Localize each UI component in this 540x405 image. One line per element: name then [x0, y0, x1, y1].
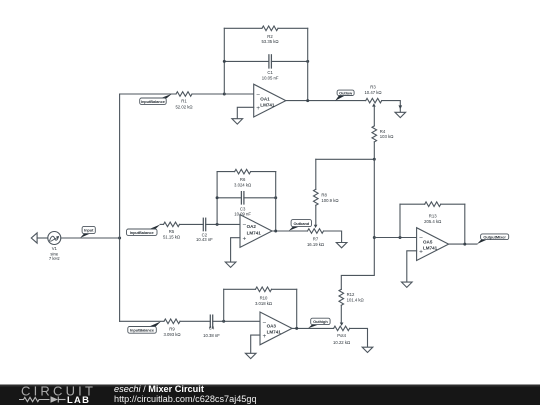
node InputBalance flag row2 [127, 225, 161, 236]
wire row1 input [120, 93, 176, 95]
svg-text:+: + [243, 236, 247, 243]
potentiometer R7 [307, 225, 324, 247]
svg-text:LAB: LAB [67, 394, 90, 405]
svg-text:7 kHz: 7 kHz [49, 256, 60, 261]
svg-text:LM741: LM741 [423, 245, 438, 250]
footer bar [0, 385, 540, 405]
junction row2 feedback left [216, 223, 219, 226]
resistor R10 [224, 287, 297, 306]
svg-text:R9: R9 [169, 326, 175, 331]
resistor R5 [160, 222, 203, 240]
node OutputMixer flag [477, 234, 509, 244]
svg-text:Outhigh: Outhigh [313, 319, 328, 324]
wire row3 input [120, 320, 164, 322]
capacitor C1 [223, 55, 309, 81]
wire trunk vertical [119, 94, 121, 321]
wire Pot4 wiper to R12 [340, 305, 342, 322]
wire R4 to bus [373, 142, 375, 159]
svg-text:R12: R12 [347, 292, 355, 297]
capacitor C4 [203, 315, 260, 338]
voltage source V1 [48, 232, 61, 261]
resistor R4 [372, 126, 393, 142]
potentiometer R3 [364, 84, 381, 106]
capacitor C3 [216, 192, 278, 217]
svg-text:OA1: OA1 [260, 97, 270, 102]
junction OA2 output [274, 230, 277, 233]
node Outband flag [289, 220, 312, 231]
svg-text:OA2: OA2 [247, 224, 257, 229]
svg-text:10.38 nF: 10.38 nF [203, 333, 220, 338]
svg-text:Outband: Outband [293, 221, 309, 226]
svg-text:R13: R13 [429, 213, 437, 218]
svg-text:100.9 kΩ: 100.9 kΩ [321, 198, 338, 203]
op-amp OA5 [417, 228, 449, 261]
junction R13 left [399, 236, 402, 239]
resistor R6 [217, 169, 276, 187]
resistor R1 [175, 92, 192, 110]
ground Pot4 [362, 347, 373, 352]
svg-text:C1: C1 [267, 70, 273, 75]
junction row3 feedback left [222, 320, 225, 323]
resistor R12 [339, 289, 364, 305]
resistor R8 [314, 189, 339, 205]
node InputBalance flag row3 [128, 321, 161, 333]
resistor R13 [400, 202, 465, 224]
wire feedback-left row1 [223, 28, 225, 94]
svg-text:LM741: LM741 [267, 330, 282, 335]
junction OA3 output [295, 327, 298, 330]
svg-text:R8: R8 [321, 192, 327, 197]
ground OA3 [245, 335, 260, 359]
svg-text:52.02 kΩ: 52.02 kΩ [175, 104, 192, 109]
svg-text:LM741: LM741 [260, 103, 275, 108]
wire feedback-left row3 [223, 289, 225, 321]
svg-text:10.22 kΩ: 10.22 kΩ [333, 340, 350, 345]
wire OA5 output [449, 243, 477, 245]
node Input flag [80, 226, 95, 238]
wire bus R8-R4 [316, 158, 375, 160]
op-amp OA1 [254, 84, 286, 117]
svg-text:R6: R6 [240, 177, 246, 182]
svg-text:3.018 kΩ: 3.018 kΩ [255, 301, 272, 306]
resistor R2 [224, 26, 307, 44]
svg-text:C4: C4 [209, 326, 215, 331]
ground R3 [395, 105, 406, 117]
svg-text:OA5: OA5 [423, 240, 433, 245]
wire feedback-left mixer [399, 204, 401, 237]
svg-text:101.4 kΩ: 101.4 kΩ [347, 298, 364, 303]
ground OA2 [225, 238, 240, 268]
wire feedback-left row2 [216, 172, 218, 225]
ground OA5 [402, 251, 417, 288]
svg-text:InputBalance: InputBalance [141, 99, 166, 104]
svg-text:Pot4: Pot4 [337, 333, 346, 338]
potentiometer Pot4 [333, 323, 350, 345]
node Outhigh flag [308, 318, 330, 328]
wire feedback-right mixer [464, 204, 466, 244]
wire summing vertical [341, 159, 374, 289]
wire OA2 output [272, 230, 308, 232]
svg-text:10.43 nF: 10.43 nF [196, 237, 213, 242]
wire R7 wiper to R8 [315, 205, 317, 225]
wire OA1 output [286, 100, 366, 102]
wire R1 to OA1 [192, 93, 254, 95]
footer title [114, 384, 257, 404]
wire feedback-right row2 [275, 172, 277, 231]
svg-text:R3: R3 [370, 84, 376, 89]
svg-text:205.4 kΩ: 205.4 kΩ [424, 219, 441, 224]
svg-text:R10: R10 [260, 296, 268, 301]
junction bus [373, 158, 376, 161]
svg-text:3.093 kΩ: 3.093 kΩ [163, 332, 180, 337]
junction input-trunk [118, 237, 121, 240]
wire R8 to bus [315, 159, 317, 189]
junction OA1 output [306, 99, 309, 102]
wire feedback-right row3 [296, 289, 298, 328]
ground OA1 [232, 107, 254, 124]
svg-text:51.15 kΩ: 51.15 kΩ [163, 235, 180, 240]
ground flag at V1 left [31, 233, 47, 243]
svg-text:3.024 kΩ: 3.024 kΩ [234, 183, 251, 188]
svg-text:103 kΩ: 103 kΩ [380, 134, 394, 139]
svg-text:LM741: LM741 [247, 230, 262, 235]
wire Pot4 to ground [350, 328, 368, 347]
svg-text:R7: R7 [313, 237, 319, 242]
wire R3 wiper to R4 [373, 106, 375, 126]
svg-text:C3: C3 [240, 206, 246, 211]
resistor R9 [163, 319, 210, 337]
svg-text:10.47 kΩ: 10.47 kΩ [364, 90, 381, 95]
logo CIRCUIT LAB [19, 384, 96, 405]
svg-text:esechi / Mixer Circuit: esechi / Mixer Circuit [114, 384, 204, 394]
svg-text:16.19 kΩ: 16.19 kΩ [307, 242, 324, 247]
wire R3 to ground [382, 101, 401, 106]
svg-text:V1: V1 [52, 246, 58, 251]
wire V1 to trunk [61, 237, 120, 239]
svg-text:Input: Input [84, 228, 94, 233]
wire feedback-right row1 [307, 28, 309, 100]
node Outlow flag [335, 90, 354, 101]
svg-text:InputBalance: InputBalance [130, 328, 155, 333]
junction OA5 output [463, 243, 466, 246]
svg-text:InputBalance: InputBalance [130, 230, 155, 235]
node InputBalance flag row1 [140, 94, 172, 105]
svg-text:R1: R1 [181, 99, 187, 104]
op-amp OA3 [260, 312, 292, 345]
svg-text:53.35 kΩ: 53.35 kΩ [261, 39, 278, 44]
wire OA3 output [292, 327, 334, 329]
wire summing to OA5 [374, 237, 416, 239]
junction summing node [373, 236, 376, 239]
ground R7 [336, 243, 347, 248]
svg-text:R5: R5 [169, 229, 175, 234]
svg-text:OutputMixer: OutputMixer [483, 234, 506, 239]
junction row1 feedback left [223, 93, 226, 96]
capacitor C2 [196, 218, 240, 242]
svg-text:http://circuitlab.com/c628cs7a: http://circuitlab.com/c628cs7aj45gq [114, 394, 257, 404]
svg-text:10.05 nF: 10.05 nF [262, 76, 279, 81]
svg-text:Outlow: Outlow [339, 90, 353, 95]
wire R7 to ground [324, 231, 342, 243]
svg-text:OA3: OA3 [267, 323, 277, 328]
op-amp OA2 [240, 215, 272, 248]
